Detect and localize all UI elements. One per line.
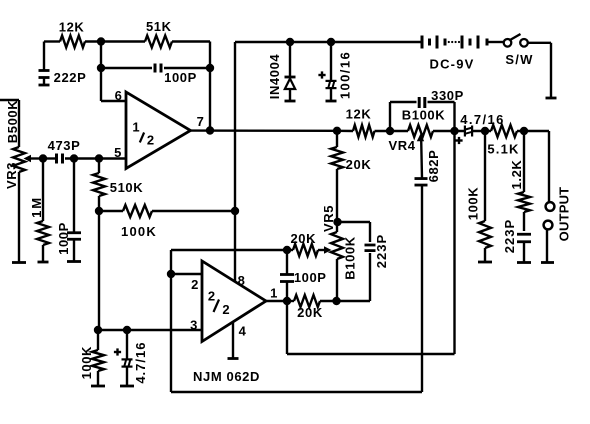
svg-text:12K: 12K bbox=[59, 20, 85, 35]
svg-text:S/W: S/W bbox=[505, 52, 533, 67]
svg-text:VR4: VR4 bbox=[388, 138, 415, 153]
svg-text:510K: 510K bbox=[110, 180, 143, 195]
svg-text:4: 4 bbox=[239, 324, 247, 339]
svg-text:223P: 223P bbox=[502, 219, 517, 253]
svg-text:100P: 100P bbox=[164, 70, 197, 85]
svg-text:3: 3 bbox=[190, 318, 198, 333]
svg-text:2: 2 bbox=[222, 302, 230, 317]
svg-text:100P: 100P bbox=[294, 270, 327, 285]
svg-text:4.7/16: 4.7/16 bbox=[460, 112, 505, 127]
svg-text:IN4004: IN4004 bbox=[267, 54, 282, 100]
svg-text:20K: 20K bbox=[297, 305, 323, 320]
svg-text:2: 2 bbox=[191, 277, 199, 292]
svg-text:100/16: 100/16 bbox=[337, 51, 352, 99]
svg-text:VR5: VR5 bbox=[321, 205, 336, 232]
svg-text:4.7/16: 4.7/16 bbox=[133, 342, 148, 384]
svg-text:473P: 473P bbox=[48, 138, 81, 153]
svg-text:223P: 223P bbox=[374, 234, 389, 268]
svg-text:7: 7 bbox=[197, 114, 205, 129]
svg-text:20K: 20K bbox=[346, 157, 372, 172]
svg-text:B100K: B100K bbox=[402, 108, 445, 123]
svg-text:100P: 100P bbox=[56, 222, 71, 255]
svg-text:1: 1 bbox=[132, 120, 140, 135]
svg-text:DC-9V: DC-9V bbox=[429, 57, 474, 72]
svg-text:222P: 222P bbox=[54, 70, 87, 85]
svg-text:5: 5 bbox=[114, 145, 122, 160]
svg-text:100K: 100K bbox=[466, 187, 481, 220]
svg-text:VR3: VR3 bbox=[4, 162, 19, 189]
svg-text:NJM 062D: NJM 062D bbox=[193, 369, 260, 384]
svg-text:682P: 682P bbox=[426, 150, 441, 183]
svg-text:2: 2 bbox=[147, 133, 155, 148]
svg-text:51K: 51K bbox=[146, 19, 172, 34]
svg-text:100K: 100K bbox=[79, 346, 94, 379]
svg-text:20K: 20K bbox=[290, 231, 316, 246]
svg-text:6: 6 bbox=[115, 88, 123, 103]
svg-text:OUTPUT: OUTPUT bbox=[556, 187, 571, 242]
svg-text:330P: 330P bbox=[431, 88, 464, 103]
svg-text:12K: 12K bbox=[346, 107, 372, 122]
svg-text:1.2K: 1.2K bbox=[509, 160, 524, 190]
svg-text:B100K: B100K bbox=[342, 236, 357, 279]
svg-text:100K: 100K bbox=[121, 224, 157, 239]
svg-text:8: 8 bbox=[238, 273, 246, 288]
svg-text:1: 1 bbox=[270, 286, 278, 301]
svg-text:1M: 1M bbox=[29, 196, 44, 218]
svg-text:5.1K: 5.1K bbox=[487, 142, 519, 157]
svg-text:2: 2 bbox=[208, 289, 216, 304]
svg-text:B500K: B500K bbox=[5, 100, 20, 143]
